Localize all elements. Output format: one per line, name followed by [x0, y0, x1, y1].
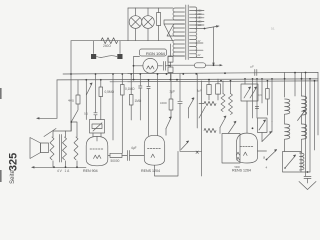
svg-text:RGN 1064: RGN 1064	[146, 51, 166, 56]
svg-text:220: 220	[198, 10, 203, 13]
svg-text:0,1: 0,1	[84, 112, 88, 116]
svg-text:4µF: 4µF	[131, 146, 137, 150]
svg-text:0,1: 0,1	[271, 27, 275, 31]
svg-text:4V: 4V	[198, 54, 201, 57]
svg-text:110: 110	[198, 24, 202, 27]
svg-text:325: 325	[8, 153, 20, 171]
svg-text:10000: 10000	[160, 102, 167, 105]
svg-text:2µF: 2µF	[170, 90, 176, 94]
svg-text:200: 200	[198, 13, 203, 16]
svg-text:RENS 1204: RENS 1204	[141, 169, 160, 173]
svg-text:5000: 5000	[235, 166, 241, 169]
svg-text:50000: 50000	[111, 159, 120, 163]
svg-text:a: a	[263, 156, 265, 160]
svg-text:125: 125	[198, 20, 203, 23]
svg-text:1MΩ: 1MΩ	[135, 99, 142, 103]
svg-text:REN 904: REN 904	[83, 169, 98, 173]
svg-text:4V: 4V	[198, 40, 201, 43]
svg-text:µF: µF	[251, 65, 255, 69]
svg-text:0,1MΩ: 0,1MΩ	[125, 87, 135, 91]
svg-text:150: 150	[198, 17, 203, 20]
svg-text:RENS 1264: RENS 1264	[232, 169, 251, 173]
svg-text:1µF: 1µF	[197, 89, 202, 93]
svg-text:240Ω: 240Ω	[103, 44, 111, 48]
svg-text:4MΩ: 4MΩ	[68, 99, 74, 103]
svg-text:Seite: Seite	[10, 170, 16, 184]
svg-text:4V 1A: 4V 1A	[57, 169, 70, 173]
svg-text:0,5MΩ: 0,5MΩ	[105, 90, 115, 94]
